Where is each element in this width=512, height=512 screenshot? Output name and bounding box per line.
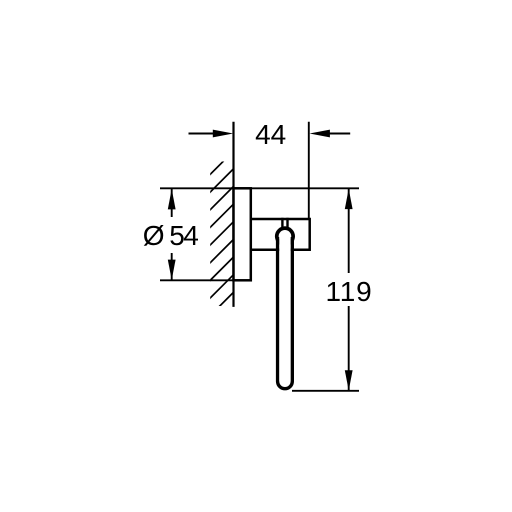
rod top cap inner white — [279, 230, 292, 243]
dimension 119 line lower segment — [348, 306, 350, 390]
wall plate (side view rectangle) — [234, 188, 251, 280]
dimension 44 right arrow — [310, 130, 330, 138]
wall hatching — [208, 151, 234, 318]
holder rod loop sides and bottom U — [278, 237, 293, 389]
extension line top (Ø54 / 119 top, y=188) — [160, 187, 359, 189]
rod top cap outer ring (bent loop around pivot) — [275, 226, 295, 246]
svg-text:Ø 54: Ø 54 — [143, 220, 199, 251]
extension line bottom of plate (Ø54 bottom, y=280) — [160, 279, 234, 281]
rod inner white slot — [279, 236, 290, 381]
dimension 119 top arrow — [345, 189, 353, 209]
dimension 44 left leader — [189, 133, 216, 135]
extension line right of bracket (44 dimension, x=309) — [308, 122, 310, 219]
pivot neck — [282, 218, 287, 228]
dimension 44 left arrow — [213, 130, 233, 138]
dimension Ø54 bottom arrow — [168, 260, 176, 280]
dimension 119 bottom arrow — [345, 370, 353, 390]
extension line bottom (119 bottom, y=391) — [292, 390, 359, 392]
svg-text:119: 119 — [325, 276, 372, 307]
svg-text:44: 44 — [255, 119, 286, 150]
dimension Ø54 line lower segment — [171, 253, 173, 280]
dimension Ø54 line upper segment — [171, 189, 173, 217]
bracket housing — [251, 219, 310, 250]
wall line — [232, 122, 234, 307]
dimension 44 right leader — [329, 133, 351, 135]
dimension Ø54 top arrow — [168, 189, 176, 209]
dimension 119 line upper segment — [348, 189, 350, 273]
